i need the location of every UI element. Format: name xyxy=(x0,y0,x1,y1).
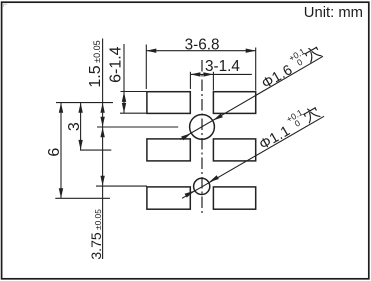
pad L2 xyxy=(147,139,190,161)
dim 6-1.4 arrow down xyxy=(122,103,126,113)
dim 1.5 tail xyxy=(102,39,104,128)
svg-text:1.5 ±0.05: 1.5 ±0.05 xyxy=(87,40,104,87)
ext row3 center xyxy=(55,197,110,199)
pad L1 xyxy=(147,92,190,114)
svg-text:Φ1.6: Φ1.6 xyxy=(259,62,295,92)
svg-text:3-1.4: 3-1.4 xyxy=(205,58,240,75)
dim 3.75 text xyxy=(88,209,104,260)
svg-text:0: 0 xyxy=(293,118,302,129)
svg-text:6: 6 xyxy=(46,148,63,157)
dim 6 arrow down xyxy=(59,188,63,198)
hole circle 1.6 xyxy=(190,115,215,140)
dim 3-1.4 line xyxy=(190,73,251,75)
dim 6-1.4 text xyxy=(108,46,125,83)
corner mark (faint) xyxy=(4,4,8,7)
dim 6 text xyxy=(46,148,63,157)
dim 3-1.4 arrow left xyxy=(190,72,200,76)
dim 3 text xyxy=(66,122,83,131)
dim 6-1.4 tail xyxy=(123,44,125,113)
dim 6-1.4 ext bottom xyxy=(120,112,146,114)
label phi 1.1 hole xyxy=(253,100,322,153)
svg-text:Unit: mm: Unit: mm xyxy=(304,5,363,21)
dim 3-6.8 arrow right xyxy=(246,49,256,53)
dim 3 line xyxy=(80,103,82,150)
dim 6-1.4 arrow up xyxy=(122,92,126,102)
dim 3.75 line xyxy=(102,127,104,259)
dim 3-6.8 arrow left xyxy=(146,49,156,53)
leader line hole 1.6 xyxy=(180,56,323,139)
svg-text:3.75 ±0.05: 3.75 ±0.05 xyxy=(88,209,104,260)
dim 1.5 text xyxy=(87,40,104,87)
kanji ana (hole) for 1.1 xyxy=(302,105,320,123)
dim 6-1.4 ext top xyxy=(121,91,147,93)
kanji ana (hole) for 1.6 xyxy=(304,45,322,63)
leader 1.1 arrow lower-left xyxy=(185,189,196,198)
dim 3.75 arrow up xyxy=(100,127,104,137)
svg-text:6-1.4: 6-1.4 xyxy=(108,46,125,83)
dim 3-6.8 ext left xyxy=(145,45,147,90)
dim 6 arrow up xyxy=(59,103,63,113)
ext row2 center xyxy=(80,149,111,151)
leader line hole 1.1 xyxy=(182,116,324,198)
dim 3-1.4 arrow right xyxy=(203,72,213,76)
dim 3-1.4 ext left xyxy=(189,72,191,89)
svg-text:0: 0 xyxy=(295,57,304,68)
dim 3-1.4 ext right xyxy=(212,72,214,91)
dim 3 arrow down xyxy=(78,140,82,150)
svg-text:Φ1.1: Φ1.1 xyxy=(257,123,293,153)
ext circle1 center xyxy=(97,126,178,128)
pad L3 xyxy=(147,187,190,209)
ext circle2 center xyxy=(96,185,147,187)
centerline xyxy=(201,60,203,214)
pad R3 xyxy=(213,187,255,209)
dim 3.75 arrow down xyxy=(100,176,104,186)
leader 1.6 arrow upper-right xyxy=(212,113,223,122)
dim 3-6.8 ext right xyxy=(255,48,257,91)
leader 1.1 arrow upper-right xyxy=(208,175,219,184)
leader 1.6 arrow lower-left xyxy=(181,131,192,140)
ext row1 center xyxy=(56,102,113,104)
dim 3 arrow up xyxy=(78,103,82,113)
hole circle 1.1 xyxy=(194,178,210,194)
pad R2 xyxy=(213,139,255,161)
svg-text:3: 3 xyxy=(66,122,83,131)
dim 1.5 arrow down xyxy=(100,117,104,127)
dim 1.5 arrow up xyxy=(100,103,104,113)
label phi 1.6 hole xyxy=(256,40,324,92)
dim 6 line xyxy=(60,103,62,198)
svg-text:3-6.8: 3-6.8 xyxy=(185,37,220,54)
dim 3-6.8 line xyxy=(146,50,255,52)
pad R1 xyxy=(213,92,255,114)
